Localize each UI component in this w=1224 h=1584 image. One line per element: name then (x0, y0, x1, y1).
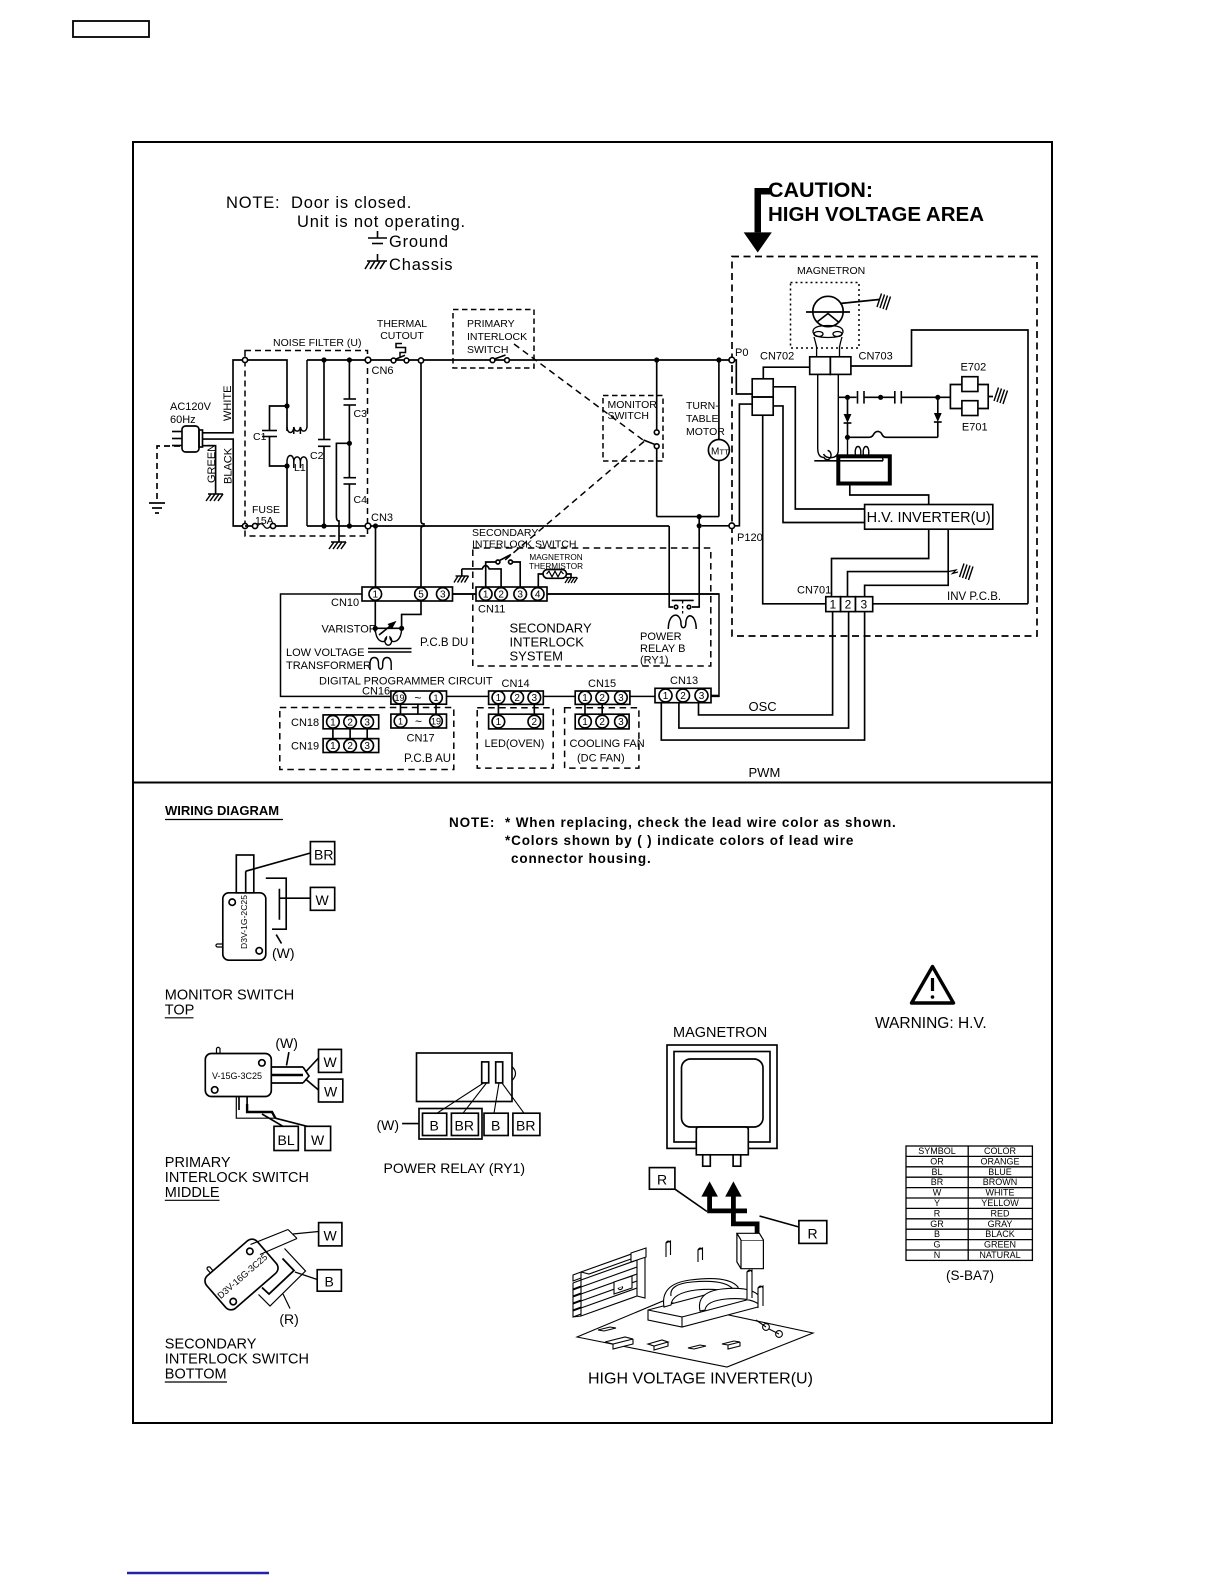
svg-text:HIGH VOLTAGE INVERTER(U): HIGH VOLTAGE INVERTER(U) (588, 1371, 813, 1388)
connector E701 (962, 401, 978, 416)
svg-text:CUTOUT: CUTOUT (380, 330, 424, 342)
THERMAL CUTOUT label (377, 318, 427, 342)
svg-text:SWITCH: SWITCH (467, 344, 508, 356)
svg-text:*Colors shown by ( ) indicate: *Colors shown by ( ) indicate colors of … (505, 833, 854, 848)
svg-text:SYSTEM: SYSTEM (510, 649, 563, 664)
svg-text:* When replacing, check the le: * When replacing, check the lead wire co… (505, 815, 897, 830)
svg-text:TT: TT (720, 448, 730, 457)
wire top line CN6 segment (307, 359, 729, 361)
svg-text:2: 2 (347, 741, 353, 752)
connector CN19 (323, 739, 379, 753)
SECONDARY INTERLOCK SWITCH BOTTOM label (165, 1337, 309, 1383)
magnetron base (813, 326, 843, 358)
node pin at CN10-5 riser (418, 358, 423, 363)
capacitor C2 (323, 360, 325, 439)
svg-text:W: W (311, 1132, 325, 1148)
wire CN702 pin2 to inverter (773, 406, 864, 523)
main border frame (133, 142, 1052, 1423)
junction CN3 right (373, 523, 378, 528)
svg-text:2: 2 (845, 598, 852, 612)
linkage dashed diagonal A (514, 344, 643, 440)
svg-text:CN16: CN16 (362, 686, 390, 698)
connector CN18 (323, 715, 379, 729)
hv inverter board isometric (573, 1241, 813, 1367)
chassis (noise filter) (329, 542, 346, 549)
secondary interlock switch (bottom) body (198, 1232, 281, 1313)
relay RY1 coil (668, 615, 696, 629)
E70x bracket (950, 385, 993, 409)
svg-text:R: R (934, 1208, 941, 1218)
magnetron filament leads (818, 374, 839, 459)
svg-text:3: 3 (618, 717, 624, 728)
magnetron stem (696, 1127, 748, 1155)
secondary interlock system dashed box (473, 548, 711, 666)
svg-text:P.C.B AU: P.C.B AU (404, 753, 451, 765)
svg-text:(W): (W) (377, 1117, 400, 1133)
connector CN17 (391, 704, 447, 728)
svg-text:3: 3 (532, 693, 538, 704)
wire CN702 pin1 to inverter (773, 387, 864, 509)
transformer core line (814, 460, 883, 462)
svg-text:2: 2 (599, 717, 605, 728)
wire CN701 pin3 rail (865, 572, 949, 597)
svg-text:(S-BA7): (S-BA7) (946, 1268, 994, 1283)
svg-text:BR: BR (931, 1177, 944, 1187)
svg-text:Ground: Ground (389, 233, 449, 251)
svg-text:(W): (W) (272, 945, 295, 961)
LED(OVEN) dashed box (477, 708, 553, 768)
junction diode2 top (935, 395, 940, 400)
dashed earth wire from plug (157, 446, 180, 503)
wires CN14 to LED connector (498, 704, 534, 714)
label box W (bottom) (305, 1126, 331, 1150)
svg-text:2: 2 (532, 717, 538, 728)
table text (918, 1146, 1020, 1260)
node P120 (729, 523, 735, 529)
svg-text:WIRING DIAGRAM: WIRING DIAGRAM (165, 803, 279, 818)
svg-text:INTERLOCK SWITCH: INTERLOCK SWITCH (165, 1170, 309, 1186)
wires CN15 to fan connector (585, 704, 602, 714)
SECONDARY INTERLOCK SWITCH label (472, 527, 576, 551)
svg-text:(W): (W) (275, 1035, 298, 1051)
connector E702 (962, 377, 978, 392)
AC120V 60Hz label (170, 401, 212, 426)
svg-text:5: 5 (418, 590, 424, 601)
wire filament right lead to cap rail (838, 396, 856, 398)
node P0 (729, 357, 735, 363)
svg-text:19: 19 (431, 716, 441, 726)
wires CN18-CN19 (333, 729, 367, 739)
svg-text:1: 1 (582, 693, 588, 704)
thick arrow right (725, 1181, 759, 1237)
primary interlock switch (middle) body (205, 1047, 271, 1096)
chassis symbol (legend) (365, 254, 387, 269)
svg-text:WARNING: H.V.: WARNING: H.V. (875, 1015, 987, 1032)
svg-text:R: R (657, 1172, 667, 1188)
pcb AU dashed box (280, 708, 454, 770)
note text block (226, 194, 466, 274)
junction C3-C4 mid (347, 441, 352, 446)
svg-text:BL: BL (931, 1167, 942, 1177)
svg-text:INTERLOCK: INTERLOCK (510, 635, 585, 650)
svg-text:INTERLOCK: INTERLOCK (467, 331, 527, 343)
svg-text:1: 1 (663, 691, 669, 702)
wire CN701 pin3 drop (PWM) (661, 612, 864, 741)
svg-text:B: B (325, 1274, 334, 1290)
wire inverter to chassis junction (947, 529, 949, 571)
junction bottom link lower (697, 523, 702, 528)
chassis (inverter) (948, 564, 973, 581)
svg-text:CN14: CN14 (502, 678, 530, 690)
svg-text:C4: C4 (354, 494, 368, 506)
svg-text:W: W (933, 1188, 942, 1198)
svg-text:V-15G-3C25: V-15G-3C25 (212, 1071, 262, 1081)
svg-text:INTERLOCK SWITCH: INTERLOCK SWITCH (165, 1352, 309, 1368)
LOW VOLTAGE TRANSFORMER label (286, 647, 371, 672)
svg-text:Y: Y (934, 1198, 940, 1208)
MONITOR SWITCH TOP label (165, 988, 294, 1019)
svg-text:15A: 15A (255, 515, 274, 527)
svg-text:BOTTOM: BOTTOM (165, 1367, 227, 1383)
primary interlock terminals right (271, 1058, 318, 1090)
SECONDARY INTERLOCK SYSTEM label (510, 621, 592, 664)
svg-text:E701: E701 (962, 422, 988, 434)
svg-text:(RY1): (RY1) (640, 655, 669, 667)
svg-text:TRANSFORMER: TRANSFORMER (286, 660, 371, 672)
PRIMARY INTERLOCK SWITCH label (467, 318, 527, 356)
junction C4 bottom (347, 523, 352, 528)
svg-text:2: 2 (347, 717, 353, 728)
wire white line (203, 360, 244, 433)
label box R (left) (649, 1168, 675, 1190)
label box BR (relay 1) (451, 1113, 478, 1135)
wire CN701 pin2 rail (848, 572, 949, 597)
capacitor C-right (895, 391, 902, 404)
junction C2 top (321, 357, 326, 362)
high voltage area dashed box (732, 257, 1037, 637)
svg-text:R: R (808, 1226, 818, 1242)
svg-text:3: 3 (440, 590, 446, 601)
svg-text:P0: P0 (735, 347, 748, 359)
primary interlock contacts (490, 358, 495, 363)
diode D2 (934, 397, 942, 437)
svg-text:GR: GR (930, 1219, 944, 1229)
svg-text:POWER RELAY (RY1): POWER RELAY (RY1) (384, 1160, 526, 1176)
svg-text:CN3: CN3 (371, 512, 393, 524)
svg-text:POWER: POWER (640, 631, 682, 643)
svg-text:1: 1 (330, 717, 336, 728)
svg-text:E702: E702 (961, 362, 987, 374)
label box B (secondary) (317, 1270, 341, 1292)
svg-text:2: 2 (498, 590, 504, 601)
magnetron window (682, 1059, 764, 1127)
svg-text:CN13: CN13 (670, 675, 698, 687)
linkage dashed diagonal B (505, 442, 644, 561)
svg-text:3: 3 (618, 693, 624, 704)
junction cap wire left (845, 395, 850, 400)
svg-text:BLUE: BLUE (988, 1167, 1012, 1177)
label box W (310, 887, 334, 910)
wire to B box (secondary) (295, 1272, 317, 1280)
svg-text:CN10: CN10 (331, 597, 359, 609)
svg-text:CAUTION:: CAUTION: (768, 178, 873, 202)
svg-text:(DC FAN): (DC FAN) (577, 753, 625, 765)
inductor L1 lower coil (287, 456, 307, 462)
svg-text:B: B (491, 1118, 500, 1134)
wire CN702 shell to inv pcb (763, 415, 826, 604)
svg-text:RELAY B: RELAY B (640, 643, 685, 655)
svg-text:SYMBOL: SYMBOL (918, 1146, 956, 1156)
magnetron thermistor TH1 (538, 570, 571, 588)
power relay fan-out wires (437, 1083, 524, 1113)
svg-text:~: ~ (414, 691, 421, 705)
svg-text:NOTE:: NOTE: (449, 815, 495, 830)
svg-text:THERMAL: THERMAL (377, 318, 427, 330)
wire fuse to CN3 (245, 466, 287, 526)
svg-text:B: B (934, 1229, 940, 1239)
MAGNETRON THERMISTOR label (529, 553, 583, 571)
POWER RELAY B (RY1) label (640, 631, 685, 667)
svg-text:3: 3 (364, 741, 370, 752)
svg-text:SECONDARY: SECONDARY (472, 527, 538, 539)
power relay body (417, 1053, 516, 1102)
svg-text:MAGNETRON: MAGNETRON (797, 265, 865, 277)
svg-text:MAGNETRON: MAGNETRON (529, 553, 582, 562)
svg-text:NATURAL: NATURAL (979, 1250, 1020, 1260)
svg-text:~: ~ (415, 715, 422, 729)
magnetron tube symbol (806, 296, 879, 326)
svg-text:N: N (934, 1250, 941, 1260)
wire CN3 to CN10 pin1 (375, 526, 377, 587)
svg-text:Unit is not operating.: Unit is not operating. (297, 213, 466, 231)
label box B (relay 2) (484, 1113, 508, 1135)
svg-text:P.C.B DU: P.C.B DU (420, 637, 468, 649)
svg-text:HIGH VOLTAGE AREA: HIGH VOLTAGE AREA (768, 203, 984, 226)
svg-text:B: B (430, 1118, 439, 1134)
connector CN13 (655, 688, 711, 702)
svg-text:3: 3 (517, 590, 523, 601)
svg-text:PWM: PWM (749, 765, 781, 780)
svg-text:YELLOW: YELLOW (981, 1198, 1019, 1208)
wire CN10 to CN11 (453, 593, 477, 595)
magnetron outer box (667, 1045, 777, 1148)
wire to W box (279, 897, 310, 899)
connector CN11 (476, 587, 547, 601)
svg-text:Chassis: Chassis (389, 256, 453, 274)
wire C1 top branch (270, 406, 288, 430)
chassis (E70x) (994, 388, 1008, 405)
MONITOR SWITCH label (608, 399, 658, 422)
varistor VA1 (375, 601, 421, 635)
svg-text:2: 2 (680, 691, 686, 702)
label box BL (274, 1126, 298, 1150)
connector CN15 (575, 691, 630, 704)
junction C2 bottom (321, 523, 326, 528)
thermal cutout TC1 (391, 344, 409, 363)
svg-text:W: W (316, 892, 330, 908)
node CN6 (365, 357, 371, 363)
ground symbol (legend) (368, 231, 387, 244)
svg-text:PRIMARY: PRIMARY (165, 1155, 231, 1171)
svg-text:1: 1 (496, 717, 502, 728)
svg-text:OSC: OSC (749, 699, 777, 714)
top-left small box (73, 21, 149, 37)
connector CN703 (810, 357, 831, 375)
connector COOLING FAN (575, 714, 629, 729)
svg-text:CN15: CN15 (588, 678, 616, 690)
chassis (magnetron) (877, 294, 891, 311)
relay RY1 contact (672, 600, 694, 614)
svg-text:COLOR: COLOR (984, 1146, 1017, 1156)
svg-text:1: 1 (373, 590, 379, 601)
svg-text:connector housing.: connector housing. (511, 851, 652, 866)
svg-text:P120: P120 (737, 532, 763, 544)
label box W (secondary) (319, 1223, 342, 1246)
chassis (green) (206, 494, 223, 501)
svg-text:3: 3 (699, 691, 705, 702)
junction monitor top (654, 357, 659, 362)
label box BR (relay 2) (513, 1113, 540, 1135)
(R) label (secondary) (283, 1294, 290, 1309)
svg-text:CN703: CN703 (859, 351, 893, 363)
pcb DU outline (281, 594, 720, 696)
chassis (secondary interlock) (454, 576, 469, 583)
wire CN13 stub to pcb edge (711, 695, 719, 697)
svg-text:NOTE:: NOTE: (226, 194, 280, 212)
svg-text:MOTOR: MOTOR (686, 426, 725, 438)
svg-text:1: 1 (830, 598, 837, 612)
capacitor C-left (858, 391, 865, 404)
svg-text:TOP: TOP (165, 1003, 195, 1019)
box H.V. INVERTER(U) (865, 505, 993, 530)
transformer T1 primary (375, 628, 401, 645)
caution text (768, 178, 984, 226)
svg-text:W: W (324, 1228, 338, 1244)
wire CN701 pin2 drop (679, 612, 849, 729)
connector LED(OVEN) (489, 714, 544, 729)
wire monitor/motor bottom (657, 516, 719, 518)
svg-text:BROWN: BROWN (983, 1177, 1018, 1187)
svg-text:W: W (324, 1054, 338, 1070)
label box B (relay 1) (423, 1113, 447, 1135)
svg-text:1: 1 (483, 590, 489, 601)
svg-text:CN18: CN18 (291, 717, 319, 729)
label box W (lower) (319, 1079, 343, 1102)
label box W (upper) (319, 1049, 342, 1072)
svg-text:CN11: CN11 (478, 604, 505, 616)
COOLING FAN dashed box (565, 708, 639, 768)
wire inverter to CN701 pin1 (832, 529, 929, 597)
junction L1 lower-left (284, 463, 289, 468)
svg-text:MIDDLE: MIDDLE (165, 1185, 220, 1201)
connector CN16 (391, 691, 447, 705)
(W) label (monitor) (276, 935, 281, 944)
svg-text:H.V. INVERTER(U): H.V. INVERTER(U) (867, 510, 991, 526)
svg-text:COOLING FAN: COOLING FAN (570, 738, 645, 750)
svg-text:4: 4 (535, 590, 541, 601)
junction diode1 bottom (845, 435, 850, 440)
svg-text:ORANGE: ORANGE (980, 1156, 1019, 1166)
wire CN11 to pcb edge right (547, 593, 719, 595)
junction bottom link top (697, 514, 702, 519)
junction varistor right (399, 626, 404, 631)
svg-text:GREEN: GREEN (984, 1240, 1016, 1250)
thick arrow left (701, 1181, 747, 1213)
transformer T1 core (368, 649, 412, 653)
secondary interlock wire band to W (251, 1230, 319, 1255)
junction varistor left (373, 626, 378, 631)
wire riser to CN10 pin5 with hop over CN3 line (421, 363, 424, 587)
label box BR (310, 842, 334, 865)
svg-text:(R): (R) (279, 1311, 298, 1327)
svg-text:AC120V: AC120V (170, 401, 212, 413)
wire black line (203, 439, 244, 526)
svg-text:SWITCH: SWITCH (608, 410, 649, 422)
svg-text:G: G (933, 1240, 940, 1250)
junction C3 top (347, 357, 352, 362)
svg-text:2: 2 (514, 693, 520, 704)
label box R (right) (799, 1221, 827, 1244)
connector CN702 (752, 379, 773, 397)
svg-text:C1: C1 (253, 431, 267, 443)
svg-text:GRAY: GRAY (988, 1219, 1013, 1229)
wire link to P120 line (698, 517, 700, 526)
transformer T1 secondary (370, 658, 391, 671)
wire to BR box (246, 853, 311, 871)
relay connector outer box (419, 1109, 482, 1140)
capacitor C3 (348, 360, 350, 399)
svg-text:TABLE: TABLE (686, 413, 718, 425)
svg-text:BR: BR (314, 847, 333, 863)
primary interlock lower terminals (236, 1097, 307, 1127)
svg-text:BL: BL (278, 1132, 295, 1148)
color code table (906, 1146, 1032, 1260)
svg-text:1: 1 (398, 716, 403, 726)
TURN-TABLE MOTOR label (686, 400, 725, 438)
capacitor C1 (262, 431, 277, 437)
svg-text:CN701: CN701 (797, 585, 831, 597)
svg-text:D3V-1G-2C25: D3V-1G-2C25 (239, 895, 249, 949)
junction cap rail mid (878, 395, 883, 400)
svg-text:C2: C2 (310, 450, 324, 462)
svg-text:60Hz: 60Hz (170, 414, 196, 426)
monitor switch (top) body (216, 893, 266, 960)
secondary interlock switch S2 (462, 555, 520, 588)
section divider line (133, 782, 1052, 784)
connector CN10 (362, 587, 453, 601)
svg-text:BR: BR (455, 1118, 474, 1134)
wire lower rail with hop (848, 431, 938, 437)
svg-text:Door is closed.: Door is closed. (291, 194, 412, 212)
ground symbol (earth) (149, 503, 165, 513)
svg-text:SECONDARY: SECONDARY (510, 621, 592, 636)
svg-text:RED: RED (990, 1208, 1010, 1218)
svg-text:THERMISTOR: THERMISTOR (529, 562, 583, 571)
svg-text:CN702: CN702 (760, 351, 794, 363)
transformer secondary coil (848, 437, 884, 461)
svg-text:PRIMARY: PRIMARY (467, 318, 515, 330)
primary interlock switch dashed box (453, 310, 534, 369)
svg-text:M: M (711, 447, 719, 458)
monitor switch (top) right tab (266, 878, 286, 929)
svg-text:19: 19 (394, 693, 404, 703)
chassis (thermistor) (565, 578, 578, 584)
diode D1 (844, 397, 852, 437)
connector CN14 (489, 691, 544, 704)
junction motor top (716, 357, 721, 362)
svg-text:C3: C3 (354, 408, 368, 420)
monitor switch dashed box (603, 396, 663, 462)
